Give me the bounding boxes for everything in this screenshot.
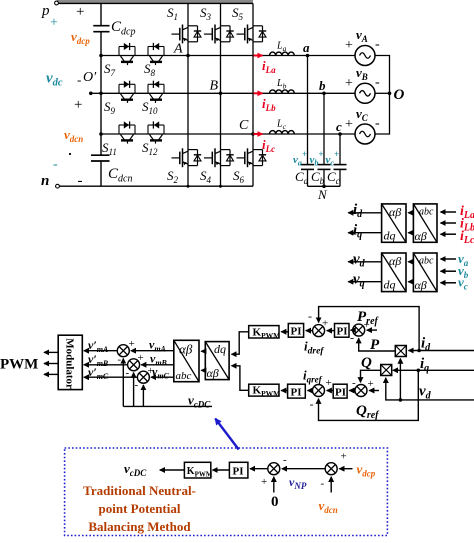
capacitor C_a [301,164,314,166]
svg-text:idref: idref [304,339,324,357]
svg-text:iLa: iLa [262,58,276,75]
wire i_d output [348,212,381,214]
bidirectional switch S11 [119,121,135,143]
svg-text:Qref: Qref [356,403,380,421]
wire PI d1 to K_PWM [281,331,288,333]
wire v_mA [131,350,174,352]
wire K_PWM d to dq block [232,332,249,354]
wire summer id to PI [306,330,313,332]
bidirectional switch S8 [148,43,164,65]
bidirectional switch S12 [148,121,164,143]
multiplier Q [381,365,392,376]
wire v_dcn input [330,477,332,493]
wire v'_mB to modulator [84,364,127,366]
block PI q1 [288,384,306,398]
svg-text:αβ: αβ [415,229,427,243]
svg-text:S8: S8 [144,61,156,78]
svg-text:+: + [322,318,328,330]
svg-text:Cdcp: Cdcp [111,19,135,38]
svg-text:abc: abc [419,256,434,267]
svg-text:n: n [41,173,49,189]
leg column 1 [187,3,189,186]
svg-text:S9: S9 [104,99,116,116]
wire v_cDC [123,405,212,407]
svg-text:vdcp: vdcp [357,462,376,479]
svg-text:+: + [341,451,347,463]
svg-text:+: + [261,476,267,488]
inductor L_c [270,131,295,134]
svg-text:0: 0 [271,494,279,510]
svg-text:vNP: vNP [289,475,307,491]
node p-A junction [99,54,103,58]
svg-text:id: id [421,336,431,354]
svg-text:Modulator: Modulator [64,338,76,389]
leg column 3 [252,3,254,186]
block PI d1 [288,324,303,338]
svg-text:αβ: αβ [389,254,401,268]
svg-text:Cdcn: Cdcn [108,166,132,185]
wire v_a input [441,258,457,260]
svg-text:C: C [239,118,249,133]
svg-text:+: + [368,378,374,390]
block alphabeta/dq currents [382,204,406,243]
svg-text:A: A [173,42,183,57]
svg-text:+: + [74,97,82,113]
transistor S2 [172,148,202,167]
svg-text:iLb: iLb [262,96,276,113]
transistor S4 [204,148,234,167]
svg-text:p: p [41,3,50,19]
wire beta current [408,232,413,234]
svg-text:PI: PI [233,466,244,478]
node C [251,132,255,136]
svg-text:+: + [345,117,353,132]
bidirectional switch S10 [148,81,164,103]
summer iq [313,385,325,397]
node N bus [308,185,341,187]
wire summer iq to PI q1 [308,390,313,392]
svg-text:Cb: Cb [311,169,325,186]
node O' stub [91,92,101,94]
block Modulator [58,335,82,389]
wire summer NP2 to NP1 [282,468,325,470]
phase rail B [101,92,355,94]
svg-text:b: b [319,78,326,93]
wire beta voltage [408,281,413,283]
bidirectional switch S9 [119,81,135,103]
wire PI to K_PWM balancing [213,469,230,471]
summer Pref [353,324,365,336]
wire PWM out 1 [44,351,58,353]
block PI q2 [333,384,347,398]
wire alpha current [408,212,413,214]
block K_PWM q [249,384,279,396]
current arrow i_Lb [254,92,263,94]
svg-text:-: - [135,379,139,391]
svg-text:+: + [129,338,135,350]
svg-text:vcDC: vcDC [188,393,211,410]
wire i_La input [441,211,457,213]
summer A [117,345,129,357]
terminal n [56,184,60,188]
node a [306,54,310,58]
node B [219,92,223,96]
svg-text:Lc: Lc [276,119,287,132]
summer id [313,325,325,337]
svg-text:S2: S2 [167,168,179,185]
svg-text:vdc: vdc [46,71,63,89]
svg-text:-: - [126,367,130,379]
svg-text:αβ: αβ [389,205,401,219]
phase rail A [101,55,355,57]
svg-text:vcDC: vcDC [124,461,147,478]
wire v_cDC riser C [142,385,144,406]
svg-text:-: - [350,331,354,345]
svg-text:Pref: Pref [357,309,380,327]
capacitor C_c [334,164,347,166]
block K_PWM balancing [184,462,210,478]
wire beta mod [201,369,205,371]
capacitor C_dcp [93,25,109,27]
wire v'_mC to modulator [84,376,137,378]
wire c to C_c [339,134,341,165]
AC source v_A [355,46,375,66]
svg-text:point Potential: point Potential [99,501,181,516]
wire v_cDC riser A [122,359,124,407]
wire v'_mA to modulator [84,350,117,352]
svg-text:-: - [283,454,287,466]
svg-text:-: - [375,116,380,131]
stray dot mark [69,153,71,155]
svg-text:αβ: αβ [207,366,219,380]
svg-text:S4: S4 [200,168,212,185]
leg column 2 [220,3,222,186]
node c [338,132,342,136]
block alphabeta/abc inverse [174,340,199,382]
wire b to C_b [323,93,325,164]
svg-text:O′: O′ [83,70,97,85]
svg-text:αβ: αβ [415,278,427,292]
svg-text:dq: dq [214,342,226,356]
wire summer NP1 to PI [250,468,268,470]
svg-text:-: - [308,309,312,323]
svg-text:vd: vd [353,252,366,270]
wire v_mB [141,364,174,366]
svg-text:S6: S6 [233,168,245,185]
wire PI d2 to summer id [327,330,335,332]
junction col2-n [219,185,222,188]
svg-text:vd: vd [419,384,432,402]
block alphabeta/dq voltages [382,253,406,292]
svg-text:Lb: Lb [276,78,287,91]
wire PWM out 2 [44,363,58,365]
wire v_q output [348,281,381,283]
phase rail C [101,133,355,135]
wire P to summer [359,338,396,351]
svg-text:PWM: PWM [0,357,38,373]
svg-text:PI: PI [335,387,346,399]
svg-text:vdcn: vdcn [319,498,338,515]
block PI d2 [335,324,350,338]
wire v_cDC riser B [133,373,135,407]
svg-text:PI: PI [291,326,302,338]
svg-text:vdcp: vdcp [71,29,90,46]
block abc/alphabeta currents [413,204,437,243]
svg-text:+: + [345,38,353,53]
transistor S6 [237,148,267,167]
svg-text:vA: vA [356,27,368,44]
svg-text:-: - [77,72,81,87]
svg-text:+: + [138,352,144,364]
svg-text:-: - [375,75,380,90]
svg-text:S5: S5 [232,5,244,22]
wire i_d into multiplier [409,350,474,352]
svg-text:S11: S11 [102,140,117,157]
svg-text:vq: vq [353,272,365,290]
svg-text:id: id [353,202,363,220]
svg-text:iLc: iLc [262,137,275,154]
svg-text:-: - [118,354,122,366]
svg-text:N: N [317,187,328,202]
wire sources to node O [375,56,390,135]
node b [322,92,326,96]
svg-text:dq: dq [384,278,396,292]
bidirectional switch S7 [119,43,135,65]
dashed box [65,448,388,536]
terminal p [55,1,59,5]
node A [186,54,190,58]
wire PI q1 to K_PWM q [281,390,287,392]
svg-text:S3: S3 [200,5,212,22]
wire summer Pref to PI d2 [351,329,353,331]
blue pointer arrow [215,419,238,450]
block abc/alphabeta voltages [413,253,437,292]
block dq/alphabeta inverse [205,342,229,380]
capacitor C_dcn [91,154,110,156]
wire v_mC [151,376,174,378]
wire PWM out 3 [44,373,58,375]
svg-text:Ca: Ca [295,169,309,186]
wire v_d output [348,261,381,263]
summer NP2 [325,463,337,475]
svg-text:-: - [352,377,356,389]
block PI balancing [229,462,248,478]
svg-text:+: + [326,377,332,389]
wire K_PWM to v_cDC [160,469,185,471]
transistor S3 [204,25,234,44]
wire a to C_a [307,56,309,165]
svg-text:S7: S7 [104,61,116,78]
svg-text:Balancing Method: Balancing Method [88,519,191,534]
DC bus wire [100,3,102,25]
wire P_ref input [367,329,377,331]
transistor S1 [172,25,202,44]
svg-text:iqref: iqref [303,368,323,385]
wire v_dcp input [339,468,352,470]
svg-text:P: P [370,337,380,353]
wire K_PWM q to dq block [232,366,249,391]
svg-text:c: c [336,119,342,134]
summer NP1 [268,463,280,475]
svg-text:-: - [375,37,380,52]
wire alpha mod [201,350,205,352]
svg-text:abc: abc [419,207,434,218]
node bus-B junction [99,92,103,96]
wire v_b input [441,270,457,272]
junction col1-n [187,185,190,188]
svg-text:La: La [276,41,287,54]
node bus-C junction [99,132,103,136]
svg-text:+: + [76,4,84,20]
transistor S5 [237,25,267,44]
wire v_d line [386,378,474,400]
current arrow i_La [254,55,263,57]
svg-text:Q: Q [361,355,372,371]
svg-text:αβ: αβ [179,342,193,357]
wire summer Qref to PI q2 [349,390,355,392]
summer B [128,359,140,371]
svg-text:+: + [50,16,58,31]
wire alpha voltage [408,261,413,263]
AC source v_C [355,124,375,144]
svg-text:-: - [321,478,325,490]
svg-text:Cc: Cc [327,169,340,186]
summer C [137,371,149,383]
node O [388,92,392,96]
svg-text:PI: PI [337,326,348,338]
wire zero input [273,477,275,493]
wire Q_ref input [369,390,379,392]
svg-text:B: B [210,79,219,94]
wire v_c input [441,282,457,284]
svg-text:vdcn: vdcn [64,127,83,144]
svg-text:O: O [394,87,405,103]
svg-text:vB: vB [356,65,368,82]
svg-text:-: - [78,173,83,189]
svg-text:-: - [53,157,58,172]
capacitor C_b [318,164,331,166]
svg-text:iq: iq [420,356,429,374]
svg-text:-: - [310,397,314,411]
wire Q to summer [361,370,381,382]
wire i_Lb input [441,222,457,224]
wire PI q2 to summer iq [327,390,334,392]
current arrow i_Lc [254,133,263,135]
svg-text:abc: abc [176,370,192,382]
svg-text:vC: vC [356,106,369,123]
wire i_q feedback [319,370,419,420]
bottom DC rail n [58,185,254,187]
multiplier P [395,346,406,357]
wire i_Lc input [441,233,457,235]
wire i_q into multiplier [393,369,474,371]
svg-text:Traditional Neutral-: Traditional Neutral- [83,483,196,498]
svg-text:dq: dq [384,229,396,243]
block K_PWM d [249,326,279,338]
AC source v_B [355,83,375,103]
summer Qref [355,385,367,397]
inductor L_b [270,90,295,93]
svg-text:iq: iq [353,223,362,241]
svg-text:S1: S1 [167,5,178,22]
svg-text:a: a [303,40,310,55]
svg-text:PI: PI [291,387,302,399]
wire v_d to multiplier P [399,359,401,400]
wire i_q output [348,232,381,234]
svg-text:+: + [345,76,353,91]
top DC rail p [57,0,253,3]
wire i_d feedback [319,307,420,351]
inductor L_a [270,52,295,55]
